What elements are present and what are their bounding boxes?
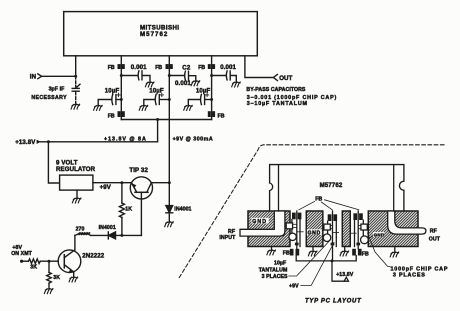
svg-text:1K: 1K	[125, 207, 132, 213]
output terminal OUT	[273, 75, 292, 82]
ferrite bead FB (bus left)	[108, 111, 125, 119]
svg-text:IN4001: IN4001	[99, 225, 116, 231]
svg-text:FB: FB	[283, 250, 290, 256]
transistor Q2 2N2222	[58, 235, 105, 276]
svg-text:+9V: +9V	[289, 284, 299, 290]
capacitor 10uF tantalum (pin4)	[188, 87, 211, 105]
node +8V	[20, 260, 23, 263]
ground (regulator)	[72, 198, 81, 203]
svg-text:10µF: 10µF	[149, 87, 164, 94]
svg-text:M57762: M57762	[140, 31, 168, 38]
label GND (block D)	[368, 232, 385, 239]
wire +13.8V feed to bus	[41, 120, 158, 142]
svg-text:10µF: 10µF	[105, 87, 120, 94]
node pin3/10uF	[168, 98, 171, 101]
capacitor 10uF tantalum (pin3)	[144, 87, 170, 105]
svg-text:10µF: 10µF	[274, 260, 286, 266]
wire TIP32 collector	[151, 182, 169, 184]
tantalum cap (ch2)	[323, 234, 331, 242]
capacitor 0.001 (pin2)	[121, 64, 150, 82]
svg-text:FB: FB	[155, 65, 162, 71]
capacitor 0.001 (pin4)	[212, 64, 237, 82]
ferrite bead FB (bus right)	[208, 111, 225, 119]
svg-text:+13.8V: +13.8V	[15, 139, 36, 146]
wire +13.8V marker	[332, 261, 354, 281]
svg-text:+13.8V @ 8A: +13.8V @ 8A	[104, 136, 147, 142]
PCB ground plane block C	[342, 211, 350, 247]
svg-text:RF: RF	[430, 229, 437, 235]
ferrite bead (ch1 top)	[292, 213, 301, 220]
capacitor C2 0.001 (pin3)	[169, 64, 196, 87]
svg-text:REGULATOR: REGULATOR	[56, 166, 96, 173]
node bus/13.8V	[156, 118, 159, 121]
label GND (block A)	[252, 218, 269, 225]
ground (C2)	[191, 81, 200, 86]
ferrite bead FB (pin4 top)	[198, 64, 215, 71]
ground (inset block C)	[340, 247, 349, 257]
svg-text:INPUT: INPUT	[219, 235, 236, 241]
ground (inset block A)	[267, 247, 276, 256]
svg-text:TYP PC LAYOUT: TYP PC LAYOUT	[305, 299, 362, 305]
svg-text:3K: 3K	[30, 265, 37, 271]
svg-text:+13.8V: +13.8V	[336, 272, 354, 278]
supply bus wire	[121, 119, 211, 121]
pin 1 lead	[75, 56, 77, 77]
svg-text:IN: IN	[30, 74, 36, 81]
label 1000pF CHIP CAP 3 PLACES with leader	[368, 233, 449, 279]
label RF INPUT	[219, 229, 236, 241]
svg-text:FB: FB	[198, 65, 205, 71]
node pin3/C2	[168, 74, 171, 77]
node inset 13.8V junction	[331, 259, 334, 262]
svg-text:3–10µF TANTALUM: 3–10µF TANTALUM	[247, 101, 308, 107]
resistor R4 3K (to ground)	[47, 261, 61, 288]
pin 5 lead (RF out)	[245, 56, 273, 78]
wire TIP32 base bus	[116, 234, 142, 236]
ground (2N2222 emitter)	[69, 277, 78, 282]
svg-text:TANTALUM: TANTALUM	[259, 268, 288, 274]
ground (rail clamp diode)	[165, 222, 174, 227]
ferrite bead FB (ch3 bottom)	[352, 249, 369, 257]
resistor R1 1K	[119, 183, 132, 236]
hybrid module U1 M57762	[64, 12, 258, 56]
ferrite bead FB (pin2 top)	[108, 64, 125, 71]
node base/divider	[48, 260, 51, 263]
terminal +13.8V	[15, 139, 41, 146]
svg-text:+9V: +9V	[100, 184, 112, 191]
ground (3K divider)	[44, 289, 53, 294]
resistor R3 3K (series)	[28, 259, 58, 271]
ground (0.001 pin2)	[145, 82, 154, 87]
svg-text:270: 270	[76, 226, 85, 232]
channel 2 lead	[332, 211, 334, 261]
svg-text:FB: FB	[108, 114, 115, 120]
channel 3 lead	[357, 211, 359, 249]
svg-text:NECESSARY: NECESSARY	[31, 95, 67, 101]
svg-text:3 PLACES: 3 PLACES	[262, 274, 288, 280]
RF input trace	[240, 211, 285, 236]
svg-text:IN4001: IN4001	[174, 207, 191, 213]
label GND (block B)	[307, 229, 322, 236]
svg-text:BY-PASS CAPACITORS: BY-PASS CAPACITORS	[246, 87, 306, 93]
tantalum cap (ch3)	[361, 236, 369, 244]
chip cap (ch2)	[324, 221, 339, 246]
chip cap (ch3)	[350, 220, 367, 246]
ground (10uF pin2)	[94, 105, 103, 110]
svg-text:GND: GND	[374, 232, 385, 237]
svg-text:0.001: 0.001	[220, 64, 236, 71]
node: IN junction	[74, 75, 77, 78]
RF output trace	[388, 211, 426, 234]
pin 2 lead	[120, 56, 122, 120]
input terminal IN	[30, 74, 76, 81]
terminal +8V ON XMT	[11, 245, 32, 261]
ground (inset block D)	[390, 247, 399, 258]
diode D1 1N4001 (rail clamp)	[166, 206, 192, 222]
svg-text:ON XMT: ON XMT	[11, 251, 32, 257]
transistor Q1 TIP32	[129, 167, 152, 235]
wire regulator out +9V	[93, 183, 130, 191]
svg-text:3 PLACES: 3 PLACES	[393, 273, 426, 279]
dashed inset boundary	[179, 145, 444, 278]
svg-text:3–0.001 (1000pF CHIP CAP): 3–0.001 (1000pF CHIP CAP)	[247, 95, 337, 101]
svg-text:M57762: M57762	[320, 182, 343, 189]
PCB ground plane block B	[306, 211, 323, 247]
svg-text:FB: FB	[218, 114, 225, 120]
channel 1 lead	[296, 211, 298, 249]
node collector/9V rail	[168, 181, 171, 184]
ground (10uF pin3)	[139, 105, 148, 110]
ground (10uF pin4)	[184, 105, 193, 110]
svg-text:0.001: 0.001	[131, 64, 147, 71]
node pin4/10uF	[210, 98, 213, 101]
node pin2/cap	[120, 74, 123, 77]
module M57762 outline	[270, 165, 404, 211]
svg-text:FB: FB	[108, 65, 115, 71]
node base/1K	[120, 234, 123, 237]
pin 3 lead	[168, 56, 170, 206]
pin 4 lead	[211, 56, 213, 120]
svg-text:10µF: 10µF	[196, 87, 211, 94]
label RF OUT	[429, 229, 441, 243]
svg-text:2N2222: 2N2222	[82, 252, 105, 259]
resistor R2 270	[75, 226, 91, 235]
ferrite bead FB (ch1 bottom)	[283, 249, 299, 256]
svg-text:TIP 32: TIP 32	[129, 167, 148, 174]
node regulator/TIP32 emitter	[120, 181, 123, 184]
capacitor 10uF tantalum (pin2)	[98, 87, 121, 105]
ferrite bead (ch3 top)	[353, 213, 362, 220]
label 10uF TANTALUM 3 PLACES with leaders	[259, 241, 330, 280]
svg-text:GND: GND	[252, 219, 267, 225]
node 13.8V/regulator tap	[47, 140, 50, 143]
ferrite bead (ch2 top)	[328, 214, 337, 221]
svg-text:+9V @ 300mA: +9V @ 300mA	[173, 136, 214, 142]
PCB ground plane block A (RF in)	[248, 211, 290, 247]
svg-text:C2: C2	[182, 64, 191, 71]
svg-text:3K: 3K	[53, 275, 60, 281]
capacitor 3pF (optional, dashed)	[31, 76, 80, 104]
svg-text:0.001: 0.001	[175, 80, 191, 87]
node pin2/10uF	[120, 98, 123, 101]
ground (0.001 pin4)	[232, 82, 241, 87]
label FB with leaders	[299, 197, 359, 210]
PCB ground plane block D (RF out)	[368, 211, 418, 247]
svg-text:GND: GND	[308, 230, 321, 236]
wire 13.8V feed bus (inset)	[296, 256, 356, 261]
ground (inset block B)	[308, 247, 317, 257]
svg-text:1000pF CHIP CAP: 1000pF CHIP CAP	[391, 266, 449, 272]
regulator U2 9 VOLT REGULATOR	[48, 142, 95, 198]
label +9V with leader	[289, 243, 334, 290]
svg-text:FB: FB	[362, 251, 369, 257]
node pin4/cap	[210, 74, 213, 77]
note: bypass capacitors	[246, 87, 337, 107]
svg-text:3pF IF: 3pF IF	[49, 86, 65, 92]
chip cap (ch1)	[286, 220, 303, 247]
diode D2 1N4001 (base drive)	[91, 225, 116, 239]
ferrite bead FB (pin3 top)	[155, 64, 173, 71]
svg-text:OUT: OUT	[429, 237, 441, 243]
svg-text:OUT: OUT	[279, 75, 292, 82]
tantalum cap (ch1)	[289, 233, 296, 240]
ground (dashed branch)	[71, 104, 80, 109]
